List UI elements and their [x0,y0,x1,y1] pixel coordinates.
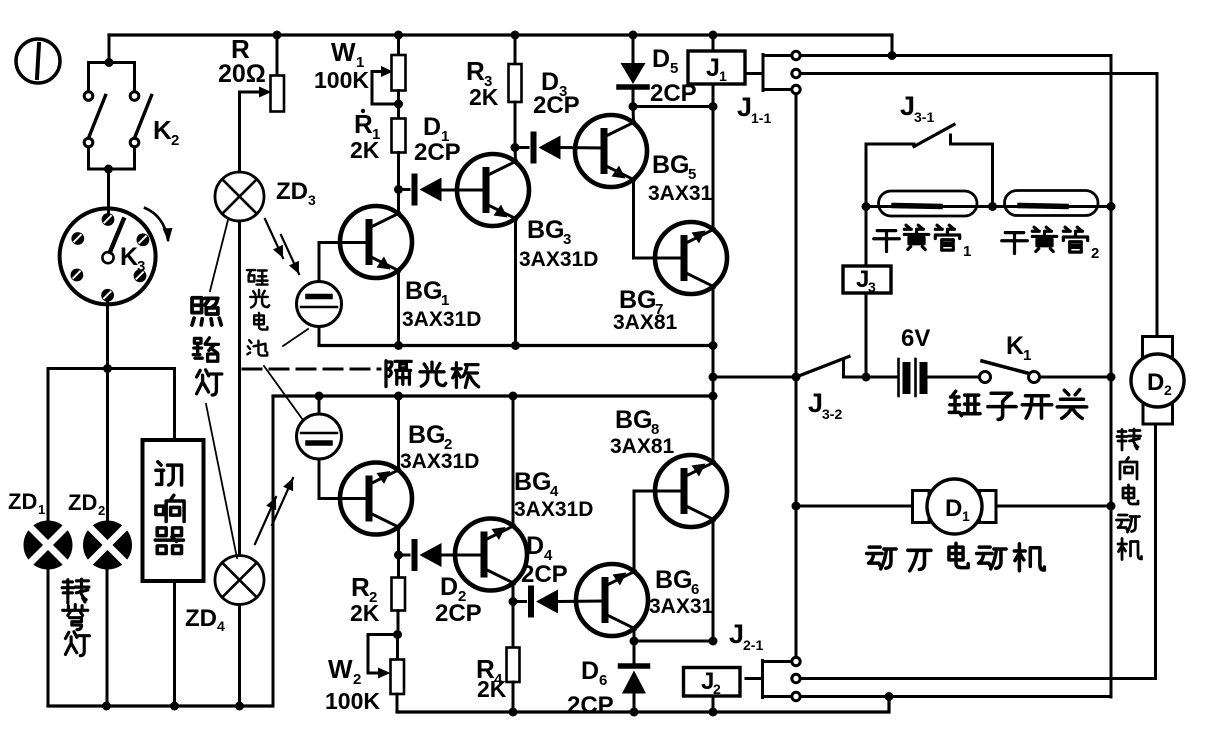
svg-text:1-1: 1-1 [751,110,771,126]
switch K2 [84,63,151,170]
node: R4 on bottom bus [509,708,518,717]
wire: BG8 collector rail [712,520,715,642]
wire: BG3 collector rail [514,148,518,162]
pointer: label to PC1 [283,329,308,346]
wire: lower mid bus [273,394,713,397]
diode D3 [515,146,528,149]
wire: R1 to D1 node [397,153,400,190]
lamp ZD1 [24,521,73,570]
svg-text:2: 2 [353,671,361,688]
node: K1 output [1107,373,1116,382]
resistor R 20ohm column [276,35,279,76]
node: BG2 emitter/D2/R2 [394,551,403,560]
switch K1 [980,372,991,383]
label 隔光板 [386,361,411,387]
label 转向电动机 [1117,429,1141,450]
node: bus right corner [888,51,897,60]
svg-text:1: 1 [719,68,727,84]
node: R top on bus [273,31,282,40]
node: lamp header junction [103,364,112,373]
wire: BG5 emitter to BG7 base [634,180,686,259]
node: PC2 top [315,392,324,401]
wire: ZD2 to bottom bus [106,570,109,707]
svg-text:BG: BG [527,216,565,244]
wire: BG6 emitter rail [633,629,636,642]
W1 wiper loop [372,70,384,73]
svg-text:2CP: 2CP [533,92,580,119]
wire: PC2 to BG2 base [319,459,369,499]
node: bottom bus riser [885,692,894,701]
svg-text:3AX31D: 3AX31D [400,450,479,473]
wire: W1 to R1 [397,91,400,119]
node: BG2 collector on lower bus [394,392,403,401]
wire: J1-1 top contact to right rail [800,54,892,57]
node: W1 top on bus [394,31,403,40]
potentiometer W2 [396,635,399,660]
wire: BG3 emitter rail [514,219,517,346]
node: BG3 emitter on mid bus [511,341,520,350]
svg-text:2K: 2K [477,676,507,702]
svg-text:J: J [900,91,915,121]
svg-text:BG: BG [405,277,443,305]
lamp ZD2 [83,521,132,570]
svg-text:100K: 100K [325,688,380,714]
resistor R2 column [397,555,400,578]
svg-text:2: 2 [1091,245,1099,262]
transistor BG7 [655,222,727,294]
svg-text:3: 3 [563,231,571,248]
node: D6 on bottom bus [630,708,639,717]
switch J3-2 [713,376,796,379]
potentiometer W1 column [397,35,400,55]
resistor R4 column [512,602,515,648]
svg-text:D: D [423,113,441,141]
transistor BG1 [340,206,412,278]
relay coil J1 [712,35,715,51]
wire: bus right corner drop [891,35,894,56]
photocell PC1 top wire / BG1 base [319,243,369,282]
svg-text:D: D [1147,369,1164,396]
node: J1 top on bus [709,31,718,40]
node: R3 top on bus [511,31,520,40]
wire: top supply bus [109,33,892,36]
wire: ZD3 to ZD4 [238,221,241,556]
node: J2 coil on bottom bus [709,708,718,717]
wire: ZD1 to bottom bus [47,570,50,707]
relay contacts J2-1 [746,657,800,700]
wire: BG4 emitter rail [512,583,515,602]
node: D1 motor right tap [1107,502,1116,511]
node: BG4 emitter/D4/R4 [509,597,518,606]
annunciator box 讯响器 [143,440,204,581]
diode D4 [513,600,526,603]
svg-text:K: K [1006,332,1024,360]
svg-text:3AX81: 3AX81 [613,311,678,334]
W2 wiper loop [368,635,398,674]
relay coil J2 [684,668,741,697]
wire: ZD4 to bottom bus [238,605,241,707]
node: BG7 collector on mid bus [709,341,718,350]
wire: J1-1 middle contact to D2 motor rail [800,74,1157,337]
wire: upper mid bus [319,344,713,347]
node: ZD2 on bottom bus [102,702,111,711]
label 讯响器 [156,462,182,485]
pointer: label to PC2 [264,366,303,420]
wire: K3/ZD2 feeder [106,369,109,522]
svg-text:3AX31D: 3AX31D [519,248,598,271]
node: D5 cathode [629,102,638,111]
svg-text:BG: BG [655,566,693,594]
wire: right bottom bus [397,697,889,713]
node: R3/D3/BG3 collector [511,143,520,152]
svg-text:1: 1 [962,508,970,524]
svg-text:BG: BG [615,406,653,434]
svg-text:ZD: ZD [185,605,217,632]
svg-text:3AX31: 3AX31 [649,595,714,618]
photocell 2 [297,414,342,459]
wire: J2-1 bottom row [800,695,1111,698]
svg-text:2: 2 [1164,382,1172,398]
wire: R tap arm to ZD3 [240,91,263,94]
wire: bus left drop to K2 [108,35,111,63]
rotary switch K3 [60,208,173,304]
wire: ZD1 feeder [47,369,50,521]
svg-text:3: 3 [868,279,876,295]
svg-text:3AX31: 3AX31 [648,182,713,205]
svg-text:6V: 6V [901,325,930,352]
diode D1 [399,188,410,191]
wire: BG2 collector rail [397,396,400,470]
wire: D2 motor bottom rail [800,424,1155,679]
pointer: label to ZD4 [206,404,237,558]
label 干簧管2 [1002,233,1028,254]
wire: D2 to BG4 base [442,554,485,557]
node: J3-2 pivot [792,373,801,382]
svg-text:2K: 2K [469,84,499,110]
node: reed2 right [1107,202,1116,211]
svg-text:ZD: ZD [276,178,308,205]
relay contacts J1-1 [745,51,800,93]
wire: J3-1 left drop / J3 coil column [865,144,868,266]
label pointer lines [206,220,308,558]
wire: D5 to J1 node [633,105,713,108]
svg-text:3: 3 [137,258,145,275]
svg-text:3AX81: 3AX81 [610,435,675,458]
svg-text:J: J [808,388,823,418]
wire: BG6 collector up to BG8 base [634,491,684,572]
svg-text:2CP: 2CP [521,561,568,588]
switch J3-1 [866,143,914,146]
wire: BG5 collector rail [632,107,636,123]
transistor BG3 [457,154,529,226]
transistor BG6 [576,564,648,636]
svg-text:K: K [153,115,172,145]
badge circled 1 [16,39,60,83]
svg-text:BG: BG [652,151,690,179]
wire: annunciator to bottom bus [173,581,176,706]
wire: D4 to BG6 base [558,600,605,604]
node: R2/W2 tie [393,630,402,639]
node: ZD4 on bottom bus [235,702,244,711]
svg-text:R: R [466,56,485,86]
transistor BG8 [655,455,727,527]
node: BG4 collector on lower bus [509,392,518,401]
node: W1 wiper tie [394,100,403,109]
svg-text:D: D [526,532,544,560]
lamp ZD3 [215,172,264,221]
relay coil J3 [843,266,891,293]
svg-text:D: D [440,573,458,601]
wire: BG4 collector rail [512,396,515,526]
svg-text:2: 2 [171,132,179,149]
svg-text:2-1: 2-1 [743,637,763,653]
diode D6 [633,641,636,663]
svg-text:ZD: ZD [68,490,97,515]
node: R1/D1/BG1 collector [394,185,403,194]
node: BG1 emitter on mid bus [394,341,403,350]
svg-text:D: D [652,45,670,73]
svg-text:2CP: 2CP [567,692,614,719]
diode D5 column [632,35,635,63]
wire: K2 to K3 [107,169,110,212]
wire: left bottom bus [48,704,273,707]
node: J1 coil bottom [709,102,718,111]
svg-text:5: 5 [688,166,696,183]
svg-text:2CP: 2CP [414,139,461,166]
label 动力电动机 [867,547,896,569]
wire: BG8 emitter rail [712,396,715,463]
svg-text:BG: BG [619,286,657,314]
svg-text:100K: 100K [314,67,369,93]
light shield dashed line [243,368,380,371]
svg-text:D: D [945,495,962,522]
wire: annunciator feeder [173,369,176,441]
svg-text:5: 5 [670,60,678,77]
light arrows ZD4 to PC2 [255,476,298,544]
transistor BG5 [575,115,647,187]
motor D1 [796,505,913,508]
label 干簧管1 [874,231,900,252]
svg-text:ZD: ZD [8,489,37,514]
hanzi labels [62,225,1141,655]
node: annunciator on bottom bus [170,702,179,711]
node: reed1/reed2 junction [988,202,997,211]
wire: rail to far right vertical [892,56,1111,698]
wire: lower bus to left bottom bus [272,396,275,706]
node: D1 motor left tap [792,502,801,511]
transistor BG4 [455,519,527,591]
node: BG8 emitter on lower bus [709,392,718,401]
svg-text:6: 6 [599,672,607,689]
svg-text:R: R [351,572,370,602]
reed switch 2 [993,205,1112,208]
wire: K3 to junction [106,299,109,369]
svg-text:3AX31D: 3AX31D [514,498,593,521]
reed switch 1 [866,205,993,208]
lamp ZD4 [215,556,264,605]
svg-text:3AX31D: 3AX31D [402,308,481,331]
wire: PC1 to mid bus [318,327,321,346]
svg-text:2: 2 [713,681,721,697]
node: BG8 collector/J2 coil [709,637,718,646]
label 硅光电池 [247,270,268,285]
svg-text:2CP: 2CP [650,80,697,107]
wire: BG7 emitter rail up to J1 [712,107,715,230]
svg-text:3-2: 3-2 [822,406,842,422]
svg-text:1: 1 [963,243,971,260]
label 转弯灯 [62,579,89,603]
photocell 1 [297,282,342,327]
svg-text:3: 3 [308,192,316,208]
light arrows ZD3 to PC1 [265,219,304,276]
label 照路灯 [192,298,221,325]
wire: D1 to BG3 base [442,189,487,192]
svg-text:W: W [331,37,356,67]
node: J3 coil bottom [862,373,871,382]
svg-text:R: R [354,109,373,139]
resistor R3 column [514,35,517,64]
svg-text:2K: 2K [350,600,380,626]
diode D2 [399,554,410,557]
svg-text:BG: BG [408,421,446,449]
wire: BG7 collector rail [712,287,715,346]
transistor BG2 [340,463,412,535]
svg-text:20Ω: 20Ω [218,60,266,88]
node: K2 to K3 [104,165,113,174]
wire: J3-2 drop [712,346,715,397]
wire: D3 to BG5 base [561,146,605,150]
svg-text:J: J [706,54,720,82]
node: J3-2 left [709,373,718,382]
pointer: label to ZD3 [210,220,228,291]
svg-text:K: K [120,243,138,271]
node: K2 feed [105,58,114,67]
wire: BG6/J2 link [634,640,713,643]
battery 6V [866,376,897,379]
svg-text:J: J [737,92,752,122]
svg-text:D: D [581,657,599,685]
svg-text:2K: 2K [350,137,380,163]
node: D5 top on bus [629,31,638,40]
svg-text:1: 1 [38,502,45,517]
resistor R1 [392,119,406,153]
svg-text:BG: BG [514,468,552,496]
wire: J1-1 bottom contact vertical to J2-1 [795,94,798,658]
wire: PC2 feeder [318,396,321,414]
wire: BG2 emitter rail [397,527,400,555]
motor D2 [1143,337,1173,358]
wire: BG1 emitter rail [397,271,400,346]
svg-text:1: 1 [1023,347,1031,364]
label 钮子开关 [949,391,980,415]
svg-text:3-1: 3-1 [914,109,934,125]
node: BG6 emitter/D6 [630,637,639,646]
wire: lamp header rail [48,367,175,370]
svg-text:J: J [729,619,744,649]
svg-text:2: 2 [98,503,105,518]
wire: J3-1 right drop to reed junction [991,144,994,207]
svg-text:W: W [328,654,353,684]
svg-text:2CP: 2CP [435,600,482,627]
svg-text:1: 1 [441,292,449,309]
svg-text:4: 4 [217,618,225,634]
wire: BG1 collector rail [397,190,400,214]
node: reed1 left [862,202,871,211]
